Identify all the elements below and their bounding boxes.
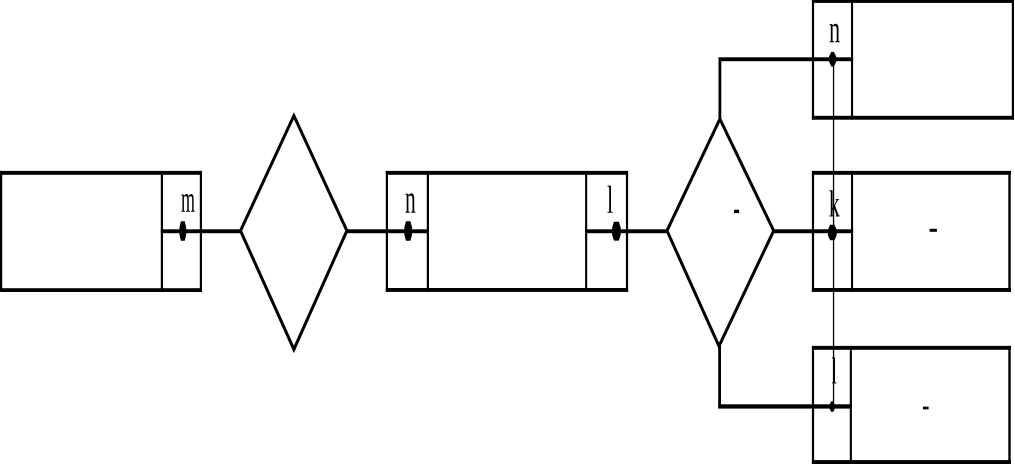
entity box E5 left edge — [812, 346, 814, 464]
marker diamond on wire at n — [404, 221, 412, 240]
entity box E1 bottom edge — [0, 288, 202, 292]
label dash in E4 — [930, 229, 937, 232]
wire R2 bottom vertical to E5 — [718, 346, 721, 408]
entity box E2 right edge — [626, 171, 628, 292]
entity box E4 right edge — [1008, 171, 1010, 292]
label l bottom right — [832, 357, 836, 383]
label l — [607, 186, 612, 213]
entity box E3 (top right) top edge — [812, 0, 1014, 3]
entity box E4 bottom edge — [812, 288, 1011, 292]
relationship diamond R1 — [241, 116, 347, 350]
label dash in R2 — [734, 210, 739, 213]
entity box E1 (left) top edge — [0, 171, 202, 175]
entity box E5 right edge — [1008, 346, 1010, 464]
marker diamond at k — [828, 225, 837, 240]
entity box E2 bottom edge — [386, 288, 628, 292]
entity box E2 (middle) top edge — [386, 171, 628, 175]
entity box E5 (bottom right) top edge — [812, 346, 1011, 350]
label k — [829, 190, 839, 216]
entity box E3 divider — [851, 0, 853, 120]
marker diamond at n top right — [829, 52, 837, 67]
label dash in E5 — [923, 407, 929, 410]
relationship diamond R2 — [667, 119, 774, 346]
entity box E3 bottom edge — [812, 116, 1014, 120]
marker diamond at l bottom right — [829, 401, 835, 412]
wire E2 to relationship R2 — [585, 229, 667, 233]
wire E1 to relationship R1 — [161, 229, 241, 233]
entity box E5 divider — [850, 346, 852, 464]
marker diamond on wire at l — [612, 222, 621, 241]
entity box E2 left edge — [386, 171, 388, 292]
wire R2 top horizontal to E3 — [719, 57, 854, 61]
entity box E4 left edge — [812, 171, 814, 292]
label m — [181, 194, 194, 212]
entity box E2 left divider — [427, 171, 429, 292]
entity box E2 right divider — [585, 171, 587, 292]
entity box E1 left edge — [0, 171, 2, 292]
label n — [406, 193, 416, 213]
thin vertical link line through n k l — [833, 59, 834, 407]
entity box E1 right edge — [200, 171, 202, 292]
wire R1 to entity E2 — [347, 229, 429, 233]
entity box E3 right edge — [1012, 0, 1014, 120]
marker diamond on wire at m — [179, 221, 186, 241]
entity box E3 left edge — [812, 0, 814, 120]
wire R2 bottom horizontal to E5 — [718, 404, 852, 408]
entity box E4 (middle right) top edge — [812, 171, 1011, 175]
wire R2 top vertical to E3 — [719, 59, 722, 119]
entity box E4 divider — [851, 171, 853, 292]
wire R2 to entity E4 (middle right) — [774, 229, 853, 233]
label n top right — [830, 24, 840, 42]
entity box E5 bottom edge — [812, 460, 1011, 464]
entity box E1 attribute divider — [161, 171, 163, 292]
